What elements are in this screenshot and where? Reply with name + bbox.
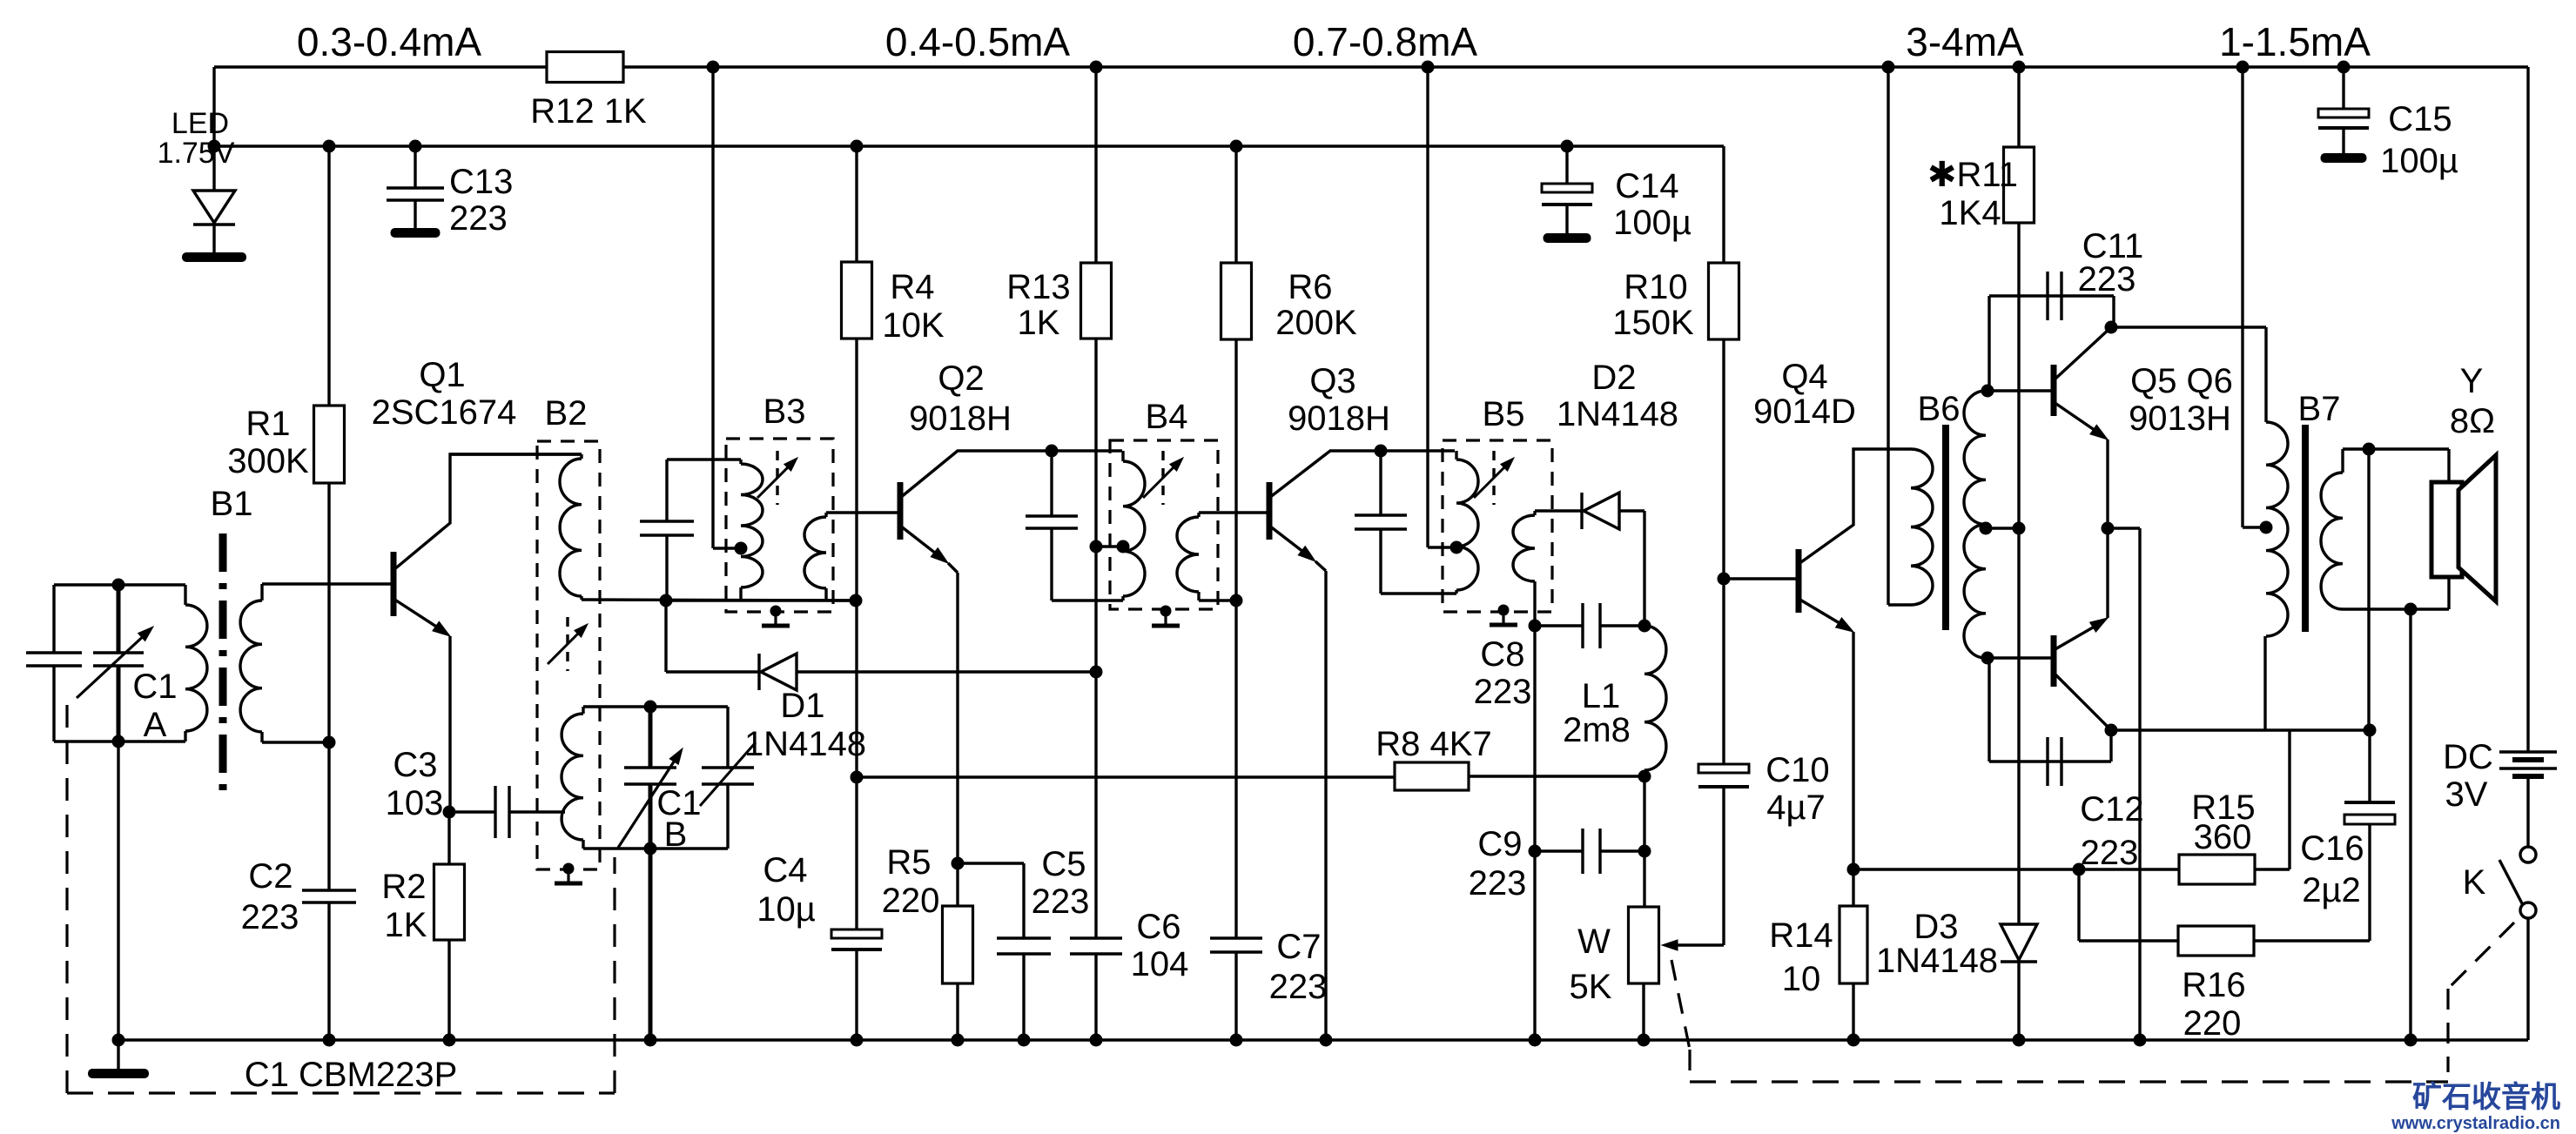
junction second rail R4 (851, 140, 864, 153)
watermark crystalradio (2391, 1081, 2560, 1133)
junction B5 primary tap (1450, 541, 1463, 554)
svg-text:223: 223 (2078, 260, 2136, 299)
junction ground Q3 emitter (1320, 1034, 1333, 1047)
svg-text:1.75V: 1.75V (158, 137, 235, 170)
svg-text:220: 220 (2183, 1004, 2242, 1043)
svg-text:223: 223 (1469, 864, 1527, 903)
ground main left (88, 1040, 149, 1078)
svg-text:✱R11: ✱R11 (1927, 156, 2018, 194)
transformer B5 box (1443, 395, 1552, 612)
capacitor C8 223 (1474, 603, 1644, 711)
svg-text:0.7-0.8mA: 0.7-0.8mA (1293, 19, 1478, 64)
transformer B6 core (1942, 425, 1949, 630)
svg-text:Q2: Q2 (938, 359, 984, 398)
svg-text:B1: B1 (211, 485, 253, 523)
switch K mechanical dashed link (2448, 923, 2514, 1072)
junction Q5 collector (2105, 321, 2118, 334)
svg-text:B6: B6 (1918, 390, 1961, 428)
svg-text:C13: C13 (449, 163, 513, 201)
wire tank bottom to ground (117, 741, 119, 1040)
junction ground C2 (323, 1034, 336, 1047)
svg-text:9014D: 9014D (1753, 393, 1856, 431)
junction speaker feedback top (2363, 443, 2376, 456)
ground B3 shield (762, 606, 790, 627)
wire feedback top from speaker (2367, 449, 2370, 730)
svg-text:C5: C5 (1041, 845, 1086, 883)
svg-text:C9: C9 (1477, 825, 1522, 863)
trimmer core B5 (1474, 451, 1514, 505)
wire Q6 emitter to node (2106, 528, 2109, 618)
junction C1-A bottom (112, 735, 125, 748)
capacitor B4 tank cap (1026, 451, 1123, 601)
transformer B7 core (2302, 425, 2309, 632)
junction B7 primary tap (2260, 521, 2273, 534)
junction top rail B7 feed (2236, 61, 2250, 74)
svg-text:C16: C16 (2300, 829, 2364, 868)
wire second rail drop to R10 (1722, 146, 1725, 263)
svg-text:8Ω: 8Ω (2450, 402, 2495, 440)
junction B2 bottom R4 node (850, 594, 863, 607)
svg-text:103: 103 (386, 784, 444, 822)
wire Q5 base (1987, 389, 2054, 392)
svg-text:C14: C14 (1615, 167, 1678, 205)
junction ground R14 (1847, 1034, 1860, 1047)
svg-text:R1: R1 (245, 405, 290, 443)
mechanical link W to switch dashed (1671, 960, 2448, 1082)
junction C9 right (1638, 845, 1651, 858)
svg-text:1K: 1K (1018, 304, 1060, 342)
svg-text:B: B (664, 815, 688, 854)
svg-text:R12 1K: R12 1K (530, 92, 647, 131)
wire Q6 collector to B7 (2111, 636, 2265, 730)
wire B5 feed from top rail (1428, 67, 1456, 547)
switch K (2463, 847, 2536, 1040)
wire top supply rail (214, 65, 2528, 68)
wire collector feedback to C16 (2265, 728, 2370, 731)
svg-text:矿石收音机: 矿石收音机 (2412, 1081, 2560, 1114)
svg-text:Q5 Q6: Q5 Q6 (2130, 362, 2233, 400)
resistor R15 360 (2179, 730, 2290, 884)
junction ground R2 (443, 1034, 456, 1047)
junction B4 secondary bottom R6 (1230, 594, 1243, 607)
junction ground B5 leg (1529, 1034, 1542, 1047)
svg-text:R2: R2 (381, 868, 426, 906)
junction R16 branch (2073, 863, 2086, 876)
capacitor C5 223 (958, 845, 1089, 1040)
transformer B1 antenna coil (185, 485, 393, 794)
wire Q6 base (1987, 656, 2054, 659)
battery DC 3V (2443, 67, 2557, 847)
svg-text:C1: C1 (132, 668, 177, 706)
transformer B4 secondary winding (1177, 513, 1269, 601)
junction Q4 base (1718, 573, 1731, 586)
label C1 gang (245, 1056, 458, 1094)
svg-text:100µ: 100µ (1613, 204, 1692, 242)
transformer B7 secondary winding (2321, 449, 2343, 609)
LED indicator diode (158, 107, 235, 252)
wire B7 tap feed (2243, 67, 2266, 527)
junction Q6 collector (2105, 724, 2118, 737)
capacitor C9 223 (1469, 825, 1644, 903)
capacitor C15 100u (2318, 67, 2458, 180)
wire B5 secondary cold leg (1533, 626, 1536, 1040)
junction B2 bottom D1 node (660, 594, 673, 607)
junction second rail C13 (409, 140, 422, 153)
junction ground C4 (851, 1034, 864, 1047)
junction C1-B top (644, 701, 657, 714)
svg-text:D1: D1 (780, 687, 824, 725)
transformer B3 primary winding (667, 460, 763, 601)
ground B4 shield (1152, 606, 1180, 627)
junction C16 top (2364, 724, 2377, 737)
junction Q1 emitter C3 (443, 806, 456, 819)
svg-text:2m8: 2m8 (1563, 711, 1631, 749)
wire B3 feed from top rail (713, 67, 741, 548)
junction C8 right (1638, 620, 1651, 633)
resistor R13 1K (1006, 67, 1111, 938)
junction B4 primary tap (1117, 540, 1130, 554)
svg-text:R5: R5 (886, 843, 931, 882)
wire B3 bottom bus (667, 599, 856, 601)
resistor R14 10 (1769, 869, 1867, 1040)
svg-text:C4: C4 (763, 851, 807, 889)
junction AGC node (851, 771, 864, 784)
svg-text:Q1: Q1 (419, 356, 465, 394)
junction C1-A top (112, 579, 125, 592)
capacitor B5 tank cap (1355, 451, 1456, 594)
svg-text:104: 104 (1131, 945, 1189, 983)
transformer B4 primary winding (1123, 451, 1145, 601)
ground B2 shield (555, 863, 582, 884)
junction top rail C15 (2337, 61, 2351, 74)
svg-text:3V: 3V (2445, 775, 2488, 814)
svg-text:B3: B3 (763, 393, 806, 431)
junction C9 left (1529, 845, 1542, 858)
junction ground C7 (1230, 1034, 1243, 1047)
transformer B3 secondary winding (804, 513, 900, 600)
svg-text:0.4-0.5mA: 0.4-0.5mA (885, 19, 1071, 64)
wire Q5 collector to B7 (2111, 327, 2266, 422)
svg-text:C7: C7 (1276, 928, 1321, 966)
transformer B3 box (726, 393, 833, 612)
svg-text:R16: R16 (2182, 966, 2245, 1004)
transformer B5 secondary winding (1513, 511, 1582, 626)
transistor Q2 9018H (900, 359, 1122, 1040)
svg-text:R4: R4 (890, 268, 934, 306)
junction second rail LED (208, 140, 221, 153)
resistor R8 4K7 AGC (857, 725, 1644, 790)
junction B4 tank cap top (1046, 445, 1059, 458)
svg-text:D2: D2 (1591, 359, 1636, 397)
junction B5 tank cap top (1375, 445, 1388, 458)
capacitor C1-B variable (osc tank) (583, 707, 756, 854)
transistor Q4 9014D (1724, 358, 1911, 869)
transformer B2 primary winding (450, 454, 856, 601)
resistor R11 1K4 (1927, 67, 2034, 528)
svg-text:150K: 150K (1612, 304, 1694, 342)
svg-text:1N4148: 1N4148 (1557, 395, 1678, 433)
transformer B6 primary winding (1888, 67, 1960, 605)
svg-text:B4: B4 (1146, 398, 1188, 436)
svg-text:R14: R14 (1769, 916, 1833, 955)
wire R4 node down (855, 601, 858, 777)
junction speaker return (2404, 603, 2418, 616)
svg-text:C12: C12 (2080, 790, 2143, 829)
junction top rail R13 (1090, 61, 1103, 74)
svg-text:223: 223 (241, 898, 299, 936)
junction push-pull emitter node (2102, 522, 2115, 535)
svg-text:www.crystalradio.cn: www.crystalradio.cn (2391, 1114, 2560, 1133)
ground C15 (2321, 153, 2367, 163)
ground LED (182, 252, 246, 262)
svg-text:DC: DC (2443, 738, 2493, 776)
junction L1 bottom R8 (1638, 770, 1651, 783)
junction ground speaker return (2404, 1034, 2418, 1047)
trimmer core B4 (1143, 451, 1183, 505)
resistor R5 220 (882, 843, 973, 983)
junction B6 sec top (1981, 385, 1994, 398)
svg-text:D3: D3 (1914, 908, 1958, 946)
inductor L1 2m8 (1563, 626, 1666, 776)
capacitor C6 104 (1070, 908, 1188, 1040)
svg-text:1K: 1K (385, 906, 427, 944)
gang link dashed bottom (67, 1091, 615, 1094)
wire speaker bottom (2343, 577, 2449, 609)
label current 0.7-0.8mA (1293, 19, 1478, 64)
wire detector to volume pot (1643, 776, 1645, 907)
potentiometer W 5K volume (1570, 907, 1724, 1040)
junction Q4 emitter node (1847, 863, 1860, 876)
svg-text:4µ7: 4µ7 (1766, 788, 1826, 827)
svg-text:1N4148: 1N4148 (744, 725, 866, 763)
junction ground tank (112, 1034, 125, 1047)
svg-text:C3: C3 (393, 746, 437, 784)
svg-text:C2: C2 (248, 857, 293, 896)
junction B6 sec tap (1980, 522, 1993, 535)
svg-text:L1: L1 (1582, 677, 1621, 715)
transistor Q6 9013H (2054, 618, 2111, 730)
resistor R1 300K (227, 146, 344, 742)
junction B6 sec bottom (1981, 652, 1994, 665)
svg-text:10µ: 10µ (757, 890, 816, 929)
transistor Q3 9018H (1269, 362, 1455, 1040)
svg-text:Y: Y (2460, 362, 2484, 400)
svg-text:R10: R10 (1624, 268, 1687, 306)
junction D1 to R13 node (1090, 666, 1103, 679)
label current 1-1.5mA (2219, 19, 2371, 64)
resistor R6 200K (1221, 146, 1358, 601)
wire ground rail (118, 1038, 2528, 1041)
svg-text:2SC1674: 2SC1674 (372, 393, 517, 432)
svg-text:C10: C10 (1766, 751, 1829, 789)
resistor R10 150K (1612, 263, 1739, 579)
capacitor C3 103 (386, 746, 565, 838)
diode D3 1N4148 bias (1876, 528, 2037, 1040)
capacitor C10 4u7 (1698, 579, 1830, 945)
junction Q2 emitter R5 C5 (952, 857, 965, 870)
svg-text:LED: LED (172, 107, 229, 140)
svg-text:R6: R6 (1288, 268, 1332, 306)
wire top rail left drop (212, 67, 215, 146)
junction ground emitters (2134, 1034, 2147, 1047)
transistor Q1 2SC1674 (372, 356, 582, 812)
transformer B4 box (1110, 398, 1218, 609)
svg-text:200K: 200K (1275, 304, 1357, 342)
junction top rail R11 (2013, 61, 2026, 74)
junction ground osc tank (644, 1034, 657, 1047)
svg-text:R8 4K7: R8 4K7 (1375, 725, 1491, 763)
ground B5 shield (1490, 605, 1517, 626)
svg-text:0.3-0.4mA: 0.3-0.4mA (297, 19, 482, 64)
wire output stage bias line (1853, 868, 2179, 870)
label current 0.4-0.5mA (885, 19, 1071, 64)
ground C14 (1544, 233, 1591, 243)
svg-text:W: W (1577, 923, 1611, 961)
svg-text:10: 10 (1782, 960, 1821, 998)
junction second rail R6 (1230, 140, 1243, 153)
junction ground D3 (2013, 1034, 2026, 1047)
capacitor C4 10u (757, 777, 882, 1040)
junction R13 tap (1090, 540, 1103, 554)
junction ground W (1638, 1034, 1651, 1047)
speaker Y 8ohm (2431, 362, 2496, 601)
junction ground C5 (1018, 1034, 1031, 1047)
svg-text:B5: B5 (1483, 395, 1525, 433)
diode D1 1N4148 (666, 601, 1096, 763)
junction second rail R1 (323, 140, 336, 153)
svg-text:223: 223 (1269, 968, 1328, 1006)
svg-text:1-1.5mA: 1-1.5mA (2219, 19, 2371, 64)
svg-text:C1 CBM223P: C1 CBM223P (245, 1056, 458, 1094)
label current 3-4mA (1906, 19, 2024, 64)
capacitor C1-A variable (tank) (26, 585, 185, 744)
trimmer core B3 (757, 451, 797, 505)
svg-text:1K4: 1K4 (1939, 194, 2001, 232)
svg-text:300K: 300K (227, 442, 309, 480)
gang link dashed C1A (65, 705, 68, 1093)
wire emitter node to ground (2108, 528, 2140, 1040)
capacitor C2 223 (241, 742, 356, 1040)
wire R13 tap jog (1096, 545, 1123, 547)
wire speaker return to ground (2409, 609, 2411, 1040)
junction B3 primary tap (735, 542, 748, 555)
svg-text:9018H: 9018H (1288, 399, 1390, 438)
junction top rail B3 feed (707, 61, 720, 74)
diode D2 1N4148 detector (1557, 359, 1678, 626)
capacitor C16 2u2 (2300, 730, 2395, 941)
junction ground R5 (952, 1034, 965, 1047)
svg-text:A: A (144, 706, 167, 744)
svg-text:9013H: 9013H (2129, 399, 2231, 438)
svg-text:3-4mA: 3-4mA (1906, 19, 2024, 64)
svg-text:B7: B7 (2298, 390, 2341, 428)
junction R11 tap (2013, 522, 2026, 535)
transistor Q5 9013H (2054, 327, 2233, 528)
junction second rail C14 (1561, 140, 1574, 153)
svg-text:100µ: 100µ (2380, 142, 2458, 180)
junction top rail B5 feed (1422, 61, 1435, 74)
junction C1-B bottom (644, 842, 657, 856)
wire second supply rail (214, 144, 1724, 147)
junction C8 left (1529, 620, 1542, 633)
svg-text:223: 223 (1032, 882, 1090, 921)
svg-text:Q4: Q4 (1781, 358, 1827, 396)
svg-text:223: 223 (449, 199, 508, 238)
svg-text:223: 223 (1474, 673, 1532, 711)
capacitor C12 223 feedback (1989, 658, 2144, 872)
label current 0.3-0.4mA (297, 19, 482, 64)
wire speaker top (2343, 449, 2449, 482)
transformer B6 secondary winding (1964, 391, 1986, 658)
capacitor C14 100u (1542, 146, 1692, 242)
svg-text:223: 223 (2081, 834, 2139, 872)
svg-text:220: 220 (882, 882, 940, 920)
svg-text:K: K (2463, 863, 2486, 902)
resistor R2 1K (381, 812, 464, 1040)
transformer B7 primary winding (2266, 390, 2340, 636)
resistor R4 10K (842, 146, 945, 601)
capacitor C13 223 (387, 146, 513, 238)
transformer B2 oscillator winding (562, 707, 583, 849)
gang link dashed C1B (613, 857, 615, 1093)
junction ground C6 (1090, 1034, 1103, 1047)
svg-text:2µ2: 2µ2 (2302, 871, 2361, 909)
svg-text:Q3: Q3 (1309, 362, 1355, 400)
svg-text:5K: 5K (1570, 968, 1612, 1006)
transformer B2 box (537, 394, 600, 869)
junction top rail B6 feed (1882, 61, 1895, 74)
trimmer core B2 (548, 617, 588, 671)
svg-text:9018H: 9018H (909, 399, 1012, 438)
capacitor C7 223 (1210, 601, 1327, 1040)
transformer B5 primary winding (1456, 451, 1478, 594)
wire osc tank to ground (649, 849, 653, 1040)
svg-text:C15: C15 (2388, 100, 2452, 138)
svg-text:R13: R13 (1006, 268, 1070, 306)
ground C13 (391, 228, 441, 238)
svg-text:C8: C8 (1480, 635, 1524, 674)
junction R1 B1 secondary bottom (323, 736, 336, 749)
resistor R16 220 (2079, 869, 2370, 1043)
capacitor C11 223 feedback (1989, 227, 2143, 391)
svg-text:C6: C6 (1136, 908, 1180, 946)
capacitor B3 tank cap (640, 460, 694, 601)
svg-text:10K: 10K (882, 306, 944, 345)
svg-text:360: 360 (2194, 818, 2252, 856)
wire B6 tap to R11 (1986, 527, 2019, 529)
svg-text:B2: B2 (545, 394, 588, 433)
resistor R12 1K (530, 52, 647, 131)
svg-text:1N4148: 1N4148 (1876, 942, 1998, 980)
